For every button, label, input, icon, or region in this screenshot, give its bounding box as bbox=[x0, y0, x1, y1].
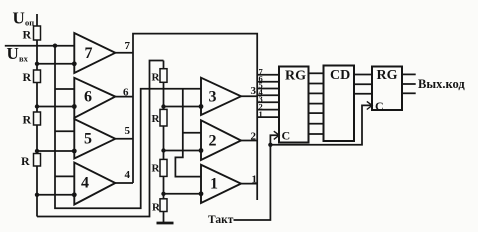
pin label row 4 bbox=[259, 87, 264, 97]
wire chain2 vertical ladder bbox=[163, 61, 165, 223]
resistor R6 bbox=[160, 109, 167, 126]
svg-text:3: 3 bbox=[251, 85, 257, 97]
svg-text:2: 2 bbox=[251, 131, 257, 143]
svg-text:3: 3 bbox=[209, 89, 217, 106]
comparator 3 bbox=[201, 78, 241, 115]
svg-text:1: 1 bbox=[210, 176, 218, 193]
svg-text:Такт: Такт bbox=[208, 214, 234, 226]
wire Uвх rail to comparator 2 upper input bbox=[183, 132, 201, 134]
wire comparator 2 output bbox=[241, 140, 257, 142]
wire CD to RG2 bit 2 bbox=[354, 83, 372, 85]
wire clock branch to RG2 C input bbox=[270, 105, 372, 144]
label R5 bbox=[152, 72, 161, 84]
junction comparator 5 lower input bbox=[72, 149, 77, 154]
svg-text:C: C bbox=[282, 129, 291, 143]
svg-text:4: 4 bbox=[81, 175, 89, 192]
label R7 bbox=[152, 163, 161, 175]
junction comparator 2 lower input bbox=[199, 148, 204, 153]
resistor R5 bbox=[160, 69, 167, 83]
wire comparator 3 output bbox=[241, 95, 257, 97]
label comparator 2 bbox=[209, 133, 217, 150]
wire RG1 to CD rung 1 bbox=[309, 72, 324, 74]
wire comparator 6 output bbox=[115, 96, 133, 98]
svg-text:U: U bbox=[13, 9, 25, 28]
register RG1 bbox=[279, 67, 309, 143]
label R4 bbox=[21, 154, 30, 168]
net label Вых.код bbox=[418, 77, 465, 91]
label R2 bbox=[23, 70, 32, 84]
junction chain2 tap 1 bbox=[161, 192, 165, 196]
comparator 7 bbox=[74, 33, 115, 73]
clock label Такт bbox=[208, 214, 234, 226]
decoder CD bbox=[324, 66, 355, 142]
svg-text:7: 7 bbox=[125, 40, 131, 52]
pin label row 7 bbox=[259, 67, 264, 77]
wire chain1 vertical ladder bbox=[36, 14, 38, 217]
junction chain1 tap 7 bbox=[35, 62, 39, 66]
clock arrow into RG2 bbox=[367, 101, 372, 109]
wire RG1 input row 6 bbox=[257, 81, 279, 83]
wire RG1 input row 2 bbox=[257, 109, 279, 111]
pin label 5 bbox=[125, 125, 131, 137]
resistor R1 bbox=[34, 26, 41, 40]
pin label row 6 bbox=[259, 73, 263, 83]
svg-text:R: R bbox=[23, 113, 32, 127]
wire RG1 input row 7 bbox=[257, 74, 279, 76]
junction clock branch bbox=[268, 143, 272, 147]
wire RG2 output bit 3 bbox=[402, 92, 416, 94]
svg-text:R: R bbox=[23, 28, 32, 42]
label R6 bbox=[152, 113, 161, 125]
svg-text:6: 6 bbox=[84, 89, 92, 106]
wire chain1 bottom link to chain2 top bbox=[37, 61, 164, 217]
wire RG1 to CD rung 2 bbox=[309, 83, 324, 85]
svg-text:R: R bbox=[152, 163, 161, 175]
label R3 bbox=[23, 113, 32, 127]
svg-text:U: U bbox=[7, 44, 19, 63]
net label Uвх bbox=[7, 44, 29, 64]
svg-text:Вых.код: Вых.код bbox=[418, 77, 465, 91]
label comparator 6 bbox=[84, 89, 92, 106]
clock arrow into RG1 bbox=[274, 131, 279, 139]
comparator 1 bbox=[201, 165, 241, 203]
label comparator 4 bbox=[81, 175, 89, 192]
wire RG1 input row 1 bbox=[257, 116, 279, 118]
label comparator 1 bbox=[210, 176, 218, 193]
wire Uвх bus to comparator 6 upper input bbox=[55, 88, 74, 90]
junction chain1 tap 5 bbox=[35, 149, 39, 153]
label RG2 bbox=[377, 68, 398, 83]
wire comparator 5 output bbox=[115, 138, 133, 140]
wire chain1 tap to comparator 6 lower input bbox=[37, 106, 74, 108]
wire comparator 4 output bbox=[115, 182, 133, 184]
pin label 7 bbox=[125, 40, 131, 52]
pin label 4 bbox=[125, 169, 131, 181]
label RG1 bbox=[285, 69, 306, 84]
label R8 bbox=[152, 202, 161, 214]
svg-text:1: 1 bbox=[252, 174, 258, 186]
junction comparator 1 lower input bbox=[199, 191, 204, 196]
svg-text:R: R bbox=[21, 154, 30, 168]
pin label C of RG2 bbox=[375, 99, 384, 113]
svg-text:4: 4 bbox=[125, 169, 131, 181]
wire RG1 input row 5 bbox=[257, 88, 279, 90]
pin label row 2 bbox=[259, 101, 263, 111]
svg-text:R: R bbox=[152, 113, 161, 125]
svg-text:1: 1 bbox=[259, 109, 263, 119]
label comparator 5 bbox=[84, 131, 92, 148]
wire comparator 7 output bbox=[115, 52, 133, 54]
wire chain2 tap to comparator 3 lower input bbox=[164, 106, 202, 108]
net label Uоп bbox=[13, 9, 35, 28]
junction comparator 3 lower input bbox=[199, 104, 204, 109]
resistor R4 bbox=[34, 154, 41, 167]
label CD bbox=[330, 68, 350, 83]
pin label 3 bbox=[251, 85, 257, 97]
svg-text:R: R bbox=[152, 202, 161, 214]
wire chain2 tap to comparator 1 lower input bbox=[164, 193, 202, 195]
wire chain1 tap to comparator 4 lower input bbox=[37, 194, 74, 196]
comparator 4 bbox=[74, 163, 115, 205]
label comparator 3 bbox=[209, 89, 217, 106]
wire chain1 tap to comparator 7 lower input bbox=[37, 63, 74, 65]
wire RG1 to CD rung 4 bbox=[309, 103, 324, 105]
wire RG1 to CD rung 5 bbox=[309, 112, 324, 114]
pin label C of RG1 bbox=[282, 129, 291, 143]
svg-text:5: 5 bbox=[125, 125, 131, 137]
comparator 6 bbox=[74, 78, 115, 118]
svg-text:C: C bbox=[375, 99, 384, 113]
resistor R2 bbox=[34, 70, 41, 83]
wire clock to RG1 C input bbox=[234, 135, 280, 220]
junction Uвх bus tap bbox=[53, 44, 57, 48]
wire RG1 input row 3 bbox=[257, 101, 279, 103]
svg-text:5: 5 bbox=[84, 131, 92, 148]
svg-text:R: R bbox=[23, 70, 32, 84]
wire comparator 1 output bbox=[241, 183, 257, 185]
comparator 5 bbox=[74, 119, 115, 159]
junction chain1 tap 4 bbox=[35, 193, 39, 197]
svg-text:RG: RG bbox=[377, 68, 398, 83]
wire chain2 tap to comparator 2 lower input bbox=[164, 150, 202, 152]
wire Uвх bus to comparator 5 upper input bbox=[55, 130, 74, 132]
pin label 1 bbox=[252, 174, 258, 186]
pin label row 5 bbox=[259, 80, 263, 90]
svg-text:вх: вх bbox=[19, 54, 29, 64]
wire bank1 output bus bbox=[133, 34, 257, 200]
register RG2 bbox=[372, 67, 402, 111]
wire Uвх rail to comparator 1 upper input bbox=[175, 89, 201, 177]
svg-text:RG: RG bbox=[285, 69, 306, 84]
wire CD to RG2 bit 3 bbox=[354, 93, 372, 95]
junction chain1 tap 6 bbox=[35, 104, 39, 108]
resistor R3 bbox=[34, 112, 41, 125]
wire RG2 output bit 2 bbox=[402, 83, 416, 85]
wire RG1 to CD rung 3 bbox=[309, 92, 324, 94]
svg-text:CD: CD bbox=[330, 68, 350, 83]
junction comparator 6 lower input bbox=[72, 104, 77, 109]
svg-text:7: 7 bbox=[85, 45, 93, 62]
wire chain1 tap to comparator 5 lower input bbox=[37, 150, 74, 152]
pin label row 1 bbox=[259, 109, 263, 119]
svg-text:2: 2 bbox=[209, 133, 217, 150]
pin label 6 bbox=[123, 87, 129, 99]
wire Uвх bus down and across to comparator 3 bbox=[55, 46, 201, 209]
wire RG1 to CD rung 6 bbox=[309, 123, 324, 125]
resistor R8 bbox=[160, 199, 167, 212]
resistor R7 bbox=[160, 159, 167, 176]
pin label 2 bbox=[251, 131, 257, 143]
label comparator 7 bbox=[85, 45, 93, 62]
wire CD to RG2 bit 1 bbox=[354, 74, 372, 76]
comparator 2 bbox=[201, 120, 241, 160]
svg-text:R: R bbox=[152, 72, 161, 84]
wire Uвх bus to comparator 4 upper input bbox=[55, 175, 74, 177]
junction chain2 tap 2 bbox=[161, 148, 165, 152]
wire RG1 to CD rung 7 bbox=[309, 133, 324, 135]
pin label row 3 bbox=[259, 94, 263, 104]
junction chain2 tap 3 bbox=[161, 104, 165, 108]
label R1 bbox=[23, 28, 32, 42]
ground bbox=[157, 222, 174, 225]
junction comparator 7 lower input bbox=[72, 61, 77, 66]
wire RG1 input row 4 bbox=[257, 94, 279, 96]
wire Uвх input to comparator 7 bbox=[5, 45, 75, 47]
wire RG2 output bit 1 bbox=[402, 73, 416, 75]
junction comparator 4 lower input bbox=[72, 192, 77, 197]
svg-text:6: 6 bbox=[123, 87, 129, 99]
